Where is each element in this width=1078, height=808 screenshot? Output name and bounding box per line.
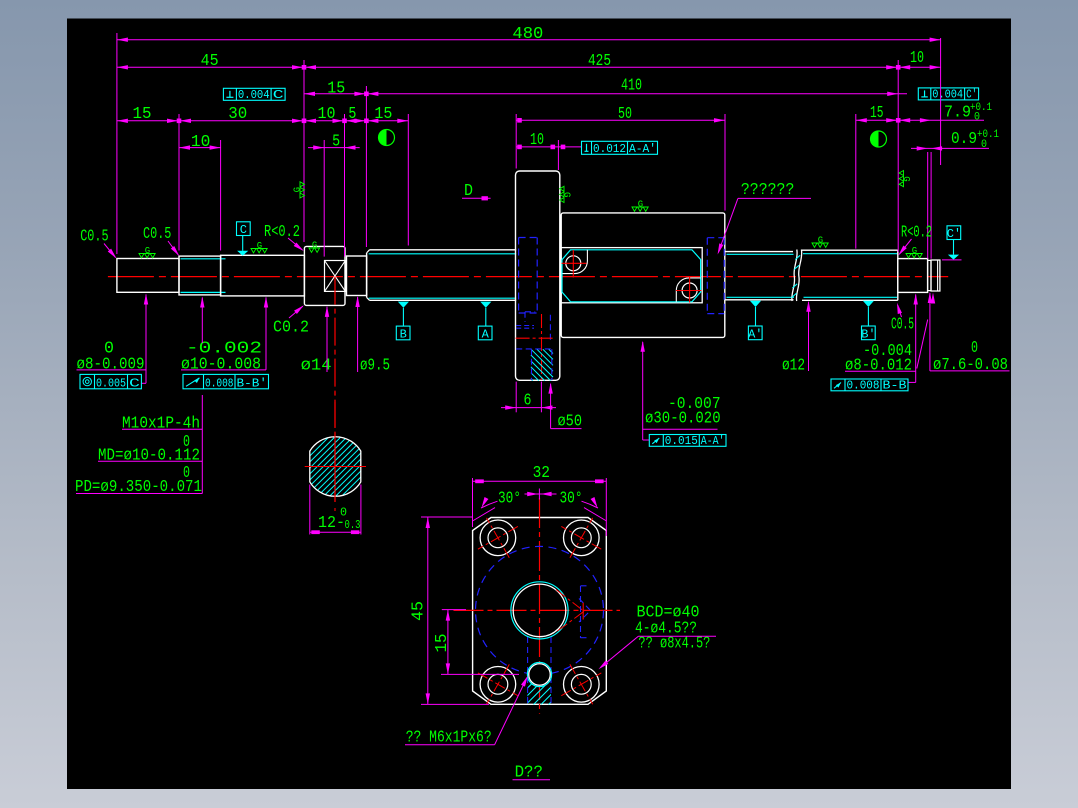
break hatch ticks — [792, 255, 800, 297]
surface mark rotated at x=304 — [293, 182, 305, 198]
dim 10 flange arrows — [517, 145, 522, 150]
ext line x=366.4 — [365, 86, 367, 247]
section circle red h-centerline — [305, 466, 366, 468]
svg-text:0: 0 — [981, 139, 987, 151]
return hole left crosshair v — [572, 250, 574, 278]
surface mark above phi8 left — [139, 254, 155, 258]
dim 15 line — [447, 610, 449, 675]
ext line x=304 — [303, 60, 305, 242]
leader C0.5 left1 — [104, 244, 116, 258]
nut hidden cap top right — [707, 237, 724, 239]
dim 10 flange line — [516, 146, 581, 148]
flange hidden bolt line left — [518, 238, 520, 314]
svg-text:C0.5: C0.5 — [143, 225, 171, 244]
nut body side view — [561, 213, 725, 338]
return hole left crosshair h — [562, 262, 587, 264]
surface mark above right journal — [906, 254, 922, 258]
flange front red v-centerline — [539, 498, 541, 714]
label phi30 underline — [643, 428, 718, 430]
ext line x=116.9 — [116, 33, 118, 254]
dim 15 right line — [856, 119, 984, 121]
surface mark rotated at flange — [560, 186, 572, 202]
dim 15 ext bottom — [441, 673, 519, 675]
nut hidden cap bottom right — [707, 313, 724, 315]
datum B box — [396, 326, 410, 340]
dim row4 left line — [117, 120, 408, 122]
D?? underline — [513, 779, 551, 781]
svg-text:0.005: 0.005 — [96, 377, 126, 391]
svg-text:15: 15 — [870, 104, 883, 123]
svg-text:425: 425 — [588, 52, 611, 71]
M10 thread root line bottom — [181, 291, 226, 293]
ext line x=558.4 — [557, 140, 559, 170]
nut hidden line right v2 — [723, 238, 725, 314]
flange M6 hatch border top — [516, 348, 553, 350]
leader BCD — [601, 636, 639, 667]
ext line x=179 — [178, 114, 180, 251]
thread root top (right1) — [727, 253, 794, 255]
svg-text:C': C' — [947, 227, 961, 241]
label phi8-0.009 underline — [77, 369, 147, 371]
surface mark rotated at x=898 — [899, 171, 911, 187]
fcf runout 0.008 B-B right — [831, 379, 908, 391]
return tube red diag 2 — [558, 611, 585, 631]
datum C2 base line — [942, 259, 962, 261]
dim 50 line — [516, 119, 725, 121]
fcf perp 0.004 C — [223, 88, 285, 100]
dim 5 line (block) — [308, 147, 360, 149]
svg-text:5: 5 — [348, 105, 356, 124]
M6 hole white circle — [529, 664, 551, 686]
svg-text:ø30-0.020: ø30-0.020 — [645, 410, 721, 429]
shaft end cap inner line — [937, 260, 939, 291]
svg-text:5: 5 — [332, 133, 340, 152]
fcf runout 0.008 B-B — [183, 374, 269, 388]
svg-text:C: C — [129, 377, 140, 391]
svg-text:7.9: 7.9 — [944, 104, 971, 123]
ballscrew thread root bottom (left) — [369, 297, 517, 299]
datum A box — [478, 326, 492, 340]
datum A2 box — [748, 326, 762, 340]
dim 12-0.3 ext lines — [309, 485, 311, 535]
svg-text:45: 45 — [410, 601, 429, 621]
nut hidden line right v1 — [706, 238, 708, 314]
ext line x=408.3 — [407, 114, 409, 246]
svg-text:B: B — [400, 328, 407, 342]
bolt hole BR — [564, 667, 600, 703]
svg-text:??????: ?????? — [741, 181, 795, 200]
svg-text:30°: 30° — [560, 490, 583, 509]
svg-text:B': B' — [861, 327, 875, 341]
svg-text:G: G — [312, 241, 317, 251]
surface mark above nut — [632, 207, 648, 211]
datum C2 box — [947, 226, 961, 240]
svg-text:15: 15 — [327, 80, 345, 99]
return hole left circle — [566, 256, 581, 271]
dim 0.9 arrows (outside) — [917, 146, 928, 150]
M6 hidden v1 — [527, 637, 529, 705]
svg-text:45: 45 — [201, 52, 219, 71]
surface mark above right shaft — [812, 243, 828, 247]
ext line x=927.7 — [927, 152, 929, 259]
nut outline phi30 dashed — [476, 546, 604, 674]
svg-text:B-B: B-B — [883, 379, 907, 393]
leader phi50 — [550, 384, 552, 429]
dim row3 arrows — [304, 92, 315, 96]
svg-text:ø7.6-0.08: ø7.6-0.08 — [933, 356, 1008, 375]
svg-text:0: 0 — [974, 112, 980, 124]
svg-text:ø10-0.008: ø10-0.008 — [181, 355, 261, 374]
leader C0.5 left2 — [168, 241, 178, 255]
bearing square diagonal 2 — [325, 261, 346, 292]
label phi10-0.008 underline — [181, 369, 266, 371]
ext line x=931.1 — [930, 152, 932, 259]
leader phi30 — [642, 342, 644, 440]
svg-text:G: G — [818, 236, 823, 246]
dim row2 line — [117, 66, 941, 68]
svg-text:ø9.5: ø9.5 — [360, 357, 390, 376]
return tube red diag 1 — [556, 590, 584, 612]
dim row5: 10 line left — [179, 147, 221, 149]
svg-text:PD=ø9.350-0.071: PD=ø9.350-0.071 — [75, 478, 202, 497]
svg-text:15: 15 — [133, 105, 152, 124]
flange front red h-centerline — [454, 609, 621, 611]
ext line x=220.6 — [220, 140, 222, 251]
return pocket right — [676, 278, 700, 302]
section circle red v-centerline — [334, 392, 336, 516]
nut flange side view — [516, 171, 560, 380]
svg-text:G: G — [901, 176, 911, 181]
svg-text:MD=ø10-0.112: MD=ø10-0.112 — [98, 447, 200, 466]
shaft M10 thread section — [179, 256, 221, 295]
bearing square — [325, 261, 346, 292]
fcf runout 0.015 A-A — [649, 435, 726, 447]
dim 480 arrow R — [930, 38, 941, 42]
ext line x=516.2 — [515, 114, 517, 169]
leader M6 label — [495, 678, 527, 745]
leader phi12 — [808, 302, 810, 371]
datum C box — [237, 222, 251, 236]
bolt hole BL — [480, 667, 516, 703]
leader phi9.5 — [357, 297, 359, 372]
dim row3 line — [304, 93, 907, 95]
svg-text:?? ø8x4.5?: ?? ø8x4.5? — [638, 635, 710, 654]
svg-text:G: G — [912, 246, 917, 256]
ext line x=324.2 — [323, 140, 325, 257]
leader phi8-0.012 — [915, 295, 917, 383]
dim 480 arrow L — [117, 38, 128, 42]
dim 480 line — [117, 39, 941, 41]
break line 1 — [792, 250, 797, 302]
BCD underline — [638, 635, 716, 637]
svg-text:15: 15 — [433, 634, 452, 653]
svg-text:C: C — [273, 88, 284, 102]
thread root bottom (right2) — [804, 296, 898, 298]
return pocket left — [563, 250, 588, 274]
svg-text:480: 480 — [512, 25, 543, 44]
M10 thread root line top — [181, 258, 226, 260]
dim 0.9 line — [911, 147, 989, 149]
svg-text:0.012: 0.012 — [593, 142, 626, 156]
dim row4 left arrows — [117, 119, 128, 123]
svg-text:A': A' — [748, 327, 762, 341]
svg-text:ø12: ø12 — [782, 357, 805, 376]
flange hidden bolt line right — [536, 238, 538, 314]
shaft right of nut bottom — [725, 299, 794, 301]
M10 label underlines — [122, 428, 202, 430]
svg-text:G: G — [638, 200, 643, 210]
ext line x=898.2 — [897, 60, 899, 252]
dim 50 arrows — [517, 118, 522, 123]
flange M6 axis red horizontal — [516, 337, 555, 339]
svg-text:0.015: 0.015 — [665, 434, 698, 448]
svg-text:B-B': B-B' — [237, 377, 268, 391]
svg-text:30°: 30° — [498, 490, 521, 509]
M6 hidden v2 — [550, 637, 552, 705]
svg-text:6: 6 — [524, 392, 532, 411]
svg-text:0.008: 0.008 — [847, 379, 880, 393]
flange M6 hatch border right — [551, 349, 553, 380]
flange hidden bolt cap bottom — [519, 312, 538, 314]
dim 30deg arc right — [582, 501, 599, 508]
dim 5 arrows (outside) — [313, 145, 324, 149]
return tube hidden stub bottom — [581, 637, 590, 639]
leader ?????? — [718, 198, 738, 252]
dim row2 arrow R — [930, 65, 941, 69]
dim row2 arrow L — [117, 65, 128, 69]
dim 32 line — [473, 480, 607, 482]
shaft phi10 journal — [221, 255, 305, 296]
return tube red vertical — [582, 603, 584, 620]
nut bore cyan outline — [562, 250, 701, 302]
dim 6 ext lines — [515, 382, 517, 413]
thread root bottom (right1) — [727, 296, 795, 298]
flange M6 axis red vertical — [541, 314, 543, 380]
dim 6 line — [501, 407, 556, 409]
fcf conc 0.005 C — [80, 374, 141, 388]
svg-text:0.008: 0.008 — [205, 377, 234, 391]
return tube hidden stub top — [581, 585, 590, 587]
return hole right crosshair h — [676, 290, 702, 292]
dim 30deg ext slant right — [584, 508, 607, 521]
bolt hole TL — [480, 520, 516, 556]
flange hidden bolt cap top — [519, 237, 538, 239]
dim 15 right arrows — [856, 118, 867, 122]
svg-text:R<0.2: R<0.2 — [901, 224, 932, 243]
ext line x=344.5 — [344, 114, 346, 257]
svg-text:0.004: 0.004 — [932, 88, 963, 102]
dim row5 arrows — [179, 145, 190, 149]
svg-text:C0.5: C0.5 — [891, 316, 914, 335]
flange hidden elbow — [525, 311, 535, 313]
dim 30deg center line — [525, 493, 557, 495]
dim 32 ext lines — [472, 478, 474, 527]
dim 30deg arc left — [481, 501, 498, 508]
svg-text:0.004: 0.004 — [238, 88, 270, 102]
return hole right crosshair v — [689, 276, 691, 302]
svg-text:50: 50 — [618, 105, 632, 124]
shaft right of nut top — [725, 251, 793, 253]
svg-text:G: G — [145, 246, 150, 256]
svg-text:10: 10 — [318, 105, 336, 124]
return tube blue chevron — [579, 599, 591, 623]
shaft phi8 right journal — [898, 259, 928, 293]
red vertical centerline through bearing square — [334, 277, 336, 502]
svg-text:10: 10 — [910, 49, 924, 68]
M6 label underline — [405, 744, 495, 746]
shaft step at phi8 right — [897, 250, 899, 300]
shaft end cap — [931, 260, 940, 291]
label phi8-0.012 underline — [845, 370, 916, 372]
return tube hidden bracket v — [580, 586, 582, 638]
shaft phi12 threaded section bottom — [802, 299, 898, 301]
svg-text:C': C' — [966, 88, 977, 102]
svg-text:A-A': A-A' — [701, 434, 725, 448]
ext line x=940.6 — [940, 38, 942, 165]
svg-text:ø8-0.009: ø8-0.009 — [77, 355, 145, 374]
shaft phi8 left journal — [117, 259, 179, 293]
leader R<0.2 right — [899, 239, 911, 254]
svg-text:32: 32 — [533, 464, 550, 483]
nut bore white rect — [561, 248, 702, 303]
half circle symbol right — [871, 131, 887, 147]
svg-text:15: 15 — [374, 105, 392, 124]
shaft centerline — [108, 276, 948, 278]
svg-text:A: A — [482, 328, 490, 342]
flange M6 hidden horizontal — [516, 325, 534, 327]
svg-text:0.3: 0.3 — [345, 518, 361, 532]
svg-text:30: 30 — [228, 105, 247, 124]
leader phi7.6 — [929, 293, 931, 371]
leader C0.5 right — [898, 305, 902, 317]
fcf perp 0.012 A-A — [582, 141, 658, 154]
flange M6 hidden line v — [549, 315, 551, 343]
bore circle cyan — [511, 582, 568, 639]
leader phi10-0.008 — [265, 298, 267, 370]
svg-text:C: C — [240, 223, 247, 237]
bearing square diagonal 1 — [325, 261, 346, 292]
svg-text:C0.2: C0.2 — [273, 319, 309, 338]
svg-text:10: 10 — [191, 133, 211, 152]
flange M6 section hatch — [531, 349, 553, 380]
ballscrew thread root top (left) — [369, 253, 517, 255]
bearing block phi14 — [304, 246, 345, 305]
thread root top (right2) — [803, 253, 897, 255]
dim row2 ticks — [302, 65, 307, 70]
retaining ring groove — [928, 260, 931, 290]
svg-text:A-A': A-A' — [629, 142, 656, 156]
break line 2 — [796, 250, 801, 302]
ballscrew thread section left outline — [370, 249, 517, 251]
surface mark above block — [309, 248, 320, 252]
bolt hole TR — [564, 520, 600, 556]
fcf perp 0.004 C2 — [918, 88, 978, 100]
leader phi8-0.009 — [145, 295, 147, 384]
svg-text:R<0.2: R<0.2 — [264, 223, 300, 242]
surface mark above phi10 — [251, 249, 267, 253]
dim 30deg ext slant left — [473, 508, 496, 521]
svg-text:G: G — [257, 241, 262, 251]
return hole right circle — [682, 283, 697, 298]
dim 45 ext top — [421, 516, 473, 518]
svg-text:410: 410 — [621, 77, 642, 96]
dim 45 line — [427, 517, 429, 704]
dim 45 ext bottom — [421, 703, 489, 705]
leader phi14 — [326, 307, 328, 372]
shaft phi9.5 section — [347, 256, 367, 296]
svg-text:G: G — [562, 192, 572, 197]
svg-text:M10x1P-4h: M10x1P-4h — [122, 415, 200, 434]
dim 15 ext top — [442, 609, 466, 611]
flange M6 hatch border left — [531, 349, 533, 380]
leader R<0.2 left — [288, 238, 303, 250]
svg-text:ø8-0.012: ø8-0.012 — [845, 357, 912, 376]
shaft phi12 threaded section top — [802, 249, 898, 251]
dim 12-0.3 line — [310, 531, 361, 533]
view D arrow — [462, 197, 491, 199]
half circle symbol left — [379, 130, 395, 146]
M6 hole cyan circle — [527, 662, 551, 686]
leader diagonal to end groove — [917, 320, 928, 369]
flange front view plate — [473, 518, 607, 705]
svg-text:10: 10 — [530, 131, 544, 150]
leader C0.2 — [289, 306, 303, 318]
svg-text:G: G — [293, 187, 303, 192]
datum B2 box — [862, 326, 876, 340]
leader M10 — [201, 298, 203, 344]
ext line x=725 — [724, 114, 726, 211]
bore circle white — [513, 584, 566, 637]
label ?????? underline — [738, 197, 811, 199]
ext line x=855.8 — [855, 114, 857, 249]
svg-text:0.9: 0.9 — [951, 130, 977, 149]
